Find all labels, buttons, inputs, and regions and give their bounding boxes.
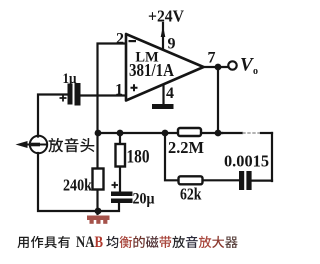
wire source to bottom <box>38 153 119 211</box>
wire input cap left <box>38 95 68 137</box>
svg-text:V: V <box>240 55 254 76</box>
caption text <box>17 237 28 248</box>
junction dot <box>215 64 222 71</box>
wire right vertical <box>271 133 273 181</box>
svg-text:240k: 240k <box>63 176 92 195</box>
capacitor 1u plates <box>68 84 73 105</box>
junction dot <box>95 130 102 137</box>
wire 62k branch left <box>165 133 179 180</box>
wire node to 240k <box>96 133 98 169</box>
wire pin1 <box>80 94 126 96</box>
op-amp minus input mark <box>129 40 137 42</box>
wire pin4 <box>162 86 164 105</box>
svg-text:9: 9 <box>168 36 176 53</box>
svg-text:2: 2 <box>116 31 124 48</box>
svg-text:0.0015: 0.0015 <box>224 152 269 171</box>
svg-text:1: 1 <box>115 82 123 99</box>
svg-text:4: 4 <box>166 85 174 102</box>
svg-text:381/1A: 381/1A <box>129 60 174 80</box>
source arrow head <box>16 141 28 148</box>
output terminal circle <box>228 61 236 69</box>
wire pin9 supply <box>162 23 164 50</box>
capacitor 20u plus mark <box>112 182 119 189</box>
svg-text:1μ: 1μ <box>63 71 77 87</box>
junction dot <box>215 130 222 137</box>
wire node row <box>98 132 179 134</box>
ground bar pin4 <box>152 104 174 109</box>
wire 180 drop <box>119 133 121 192</box>
resistor 180 <box>116 144 126 167</box>
capacitor 20u plates <box>111 192 133 197</box>
playback head source circle <box>30 136 47 153</box>
junction dot <box>117 130 124 137</box>
wire pin2 to node <box>98 44 127 134</box>
wire output down <box>217 67 219 133</box>
resistor 2.2M <box>178 128 201 136</box>
svg-text:+24V: +24V <box>148 7 184 26</box>
red ground symbol <box>87 216 110 224</box>
op-amp plus input mark <box>131 84 138 91</box>
svg-text:NAB: NAB <box>76 234 103 251</box>
svg-text:180: 180 <box>127 148 150 168</box>
resistor 62k <box>179 176 203 184</box>
svg-text:o: o <box>253 66 258 77</box>
capacitor 1u plus mark <box>60 95 67 102</box>
capacitor 0.0015 plates <box>239 171 244 190</box>
wire cap to right <box>252 180 273 182</box>
svg-text:20μ: 20μ <box>133 191 155 208</box>
svg-text:62k: 62k <box>180 185 202 204</box>
supply arrow on pin9 wire <box>161 26 166 38</box>
junction dot <box>162 130 169 137</box>
wire source arrow line <box>20 144 47 146</box>
op-amp U1 LM381/1A triangle <box>126 34 204 101</box>
junction dot <box>95 208 102 215</box>
svg-text:7: 7 <box>208 50 216 67</box>
playback head label (fang yin tou) <box>48 138 63 153</box>
wire 240k to bottom <box>96 190 98 215</box>
wire 62k to cap <box>203 179 240 181</box>
resistor 240k <box>93 169 104 190</box>
wire node row dashed <box>222 132 242 134</box>
wire output <box>203 66 228 68</box>
svg-text:2.2M: 2.2M <box>168 138 204 157</box>
